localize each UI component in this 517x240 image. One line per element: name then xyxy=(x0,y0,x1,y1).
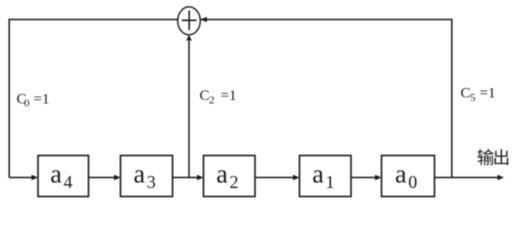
svg-text:=1: =1 xyxy=(34,92,50,108)
register a0 box xyxy=(382,156,435,197)
register a3 box xyxy=(121,156,173,197)
svg-text:3: 3 xyxy=(147,172,156,192)
label C2=1 xyxy=(200,88,237,107)
arrowhead into XOR from right xyxy=(201,17,207,22)
label a1 xyxy=(312,160,334,193)
op: XOR plus sign xyxy=(182,11,197,31)
svg-text:4: 4 xyxy=(64,172,73,192)
svg-text:5: 5 xyxy=(470,92,476,104)
svg-text:a: a xyxy=(50,160,62,189)
wire: right vertical from output to top xyxy=(451,19,453,178)
wire: a2 to a1 xyxy=(255,177,294,179)
arrowhead into a1 xyxy=(293,175,300,181)
svg-text:a: a xyxy=(134,160,146,189)
register a4 box xyxy=(38,156,89,197)
arrowhead into a2 xyxy=(197,175,204,181)
wire: a4 to a3 xyxy=(89,177,115,179)
svg-text:C: C xyxy=(200,88,210,104)
arrowhead into XOR from below xyxy=(186,35,191,41)
svg-text:=1: =1 xyxy=(480,86,496,102)
label a0 xyxy=(395,160,417,193)
wire: top feedback line left of XOR xyxy=(9,19,178,21)
svg-text:1: 1 xyxy=(326,172,335,192)
label C0=1 xyxy=(17,92,50,110)
svg-text:2: 2 xyxy=(209,95,215,107)
svg-text:C: C xyxy=(461,86,471,102)
svg-text:=1: =1 xyxy=(221,88,237,104)
wire: a3 to node to a2 xyxy=(173,177,198,179)
svg-text:0: 0 xyxy=(408,172,417,192)
label a4 xyxy=(50,160,72,193)
svg-text:2: 2 xyxy=(230,172,239,192)
label C5=1 xyxy=(461,86,496,105)
wire: top feedback line right of XOR xyxy=(201,19,452,21)
arrowhead output tip xyxy=(498,175,505,181)
wire: left vertical feedback xyxy=(8,19,10,178)
arrowhead into a4 xyxy=(32,175,39,181)
wire: XOR tap vertical from node between a3 and a2 xyxy=(188,41,190,178)
svg-text:a: a xyxy=(312,160,324,189)
arrowhead into a3 xyxy=(114,175,121,181)
arrowhead into a0 xyxy=(375,175,382,181)
svg-text:a: a xyxy=(216,160,228,189)
label output 输出 (drawn glyphs) xyxy=(478,149,509,165)
wire: a1 to a0 xyxy=(351,177,376,179)
op: XOR adder circle xyxy=(178,7,201,35)
label a2 xyxy=(216,160,238,193)
register a2 box xyxy=(204,156,256,197)
label a3 xyxy=(134,160,156,193)
register a1 box xyxy=(300,156,352,197)
wire: a0 to output xyxy=(435,177,499,179)
svg-text:0: 0 xyxy=(24,98,30,110)
svg-text:a: a xyxy=(395,160,407,189)
wire: left stub into a4 xyxy=(9,177,32,179)
